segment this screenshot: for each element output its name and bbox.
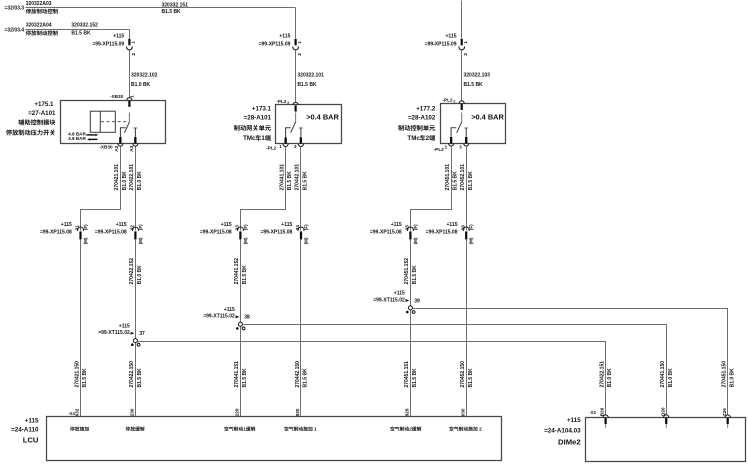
- svg-text:B1.5 BK: B1.5 BK: [242, 265, 248, 285]
- svg-text:=99-XT115.02: =99-XT115.02: [98, 330, 130, 336]
- svg-text:320322.101: 320322.101: [297, 73, 324, 79]
- svg-text:B1.0 BK: B1.0 BK: [668, 368, 674, 388]
- svg-text:32: 32: [130, 225, 135, 231]
- unit =28-A102 brake control unit box: [441, 104, 506, 144]
- svg-text:270441.152: 270441.152: [234, 258, 240, 285]
- svg-text:=32/03.4: =32/03.4: [4, 28, 24, 34]
- pin -PL2:1 box3: [449, 137, 454, 146]
- connector =99-XP115.08 pin 34: [260, 222, 308, 244]
- wire label 270422.152 B1.0 BK: [129, 258, 143, 285]
- svg-text:B1.5 BK: B1.5 BK: [468, 171, 474, 191]
- svg-text:B1.0 BK: B1.0 BK: [137, 171, 143, 191]
- svg-text:1: 1: [243, 427, 246, 433]
- svg-text:270442.101: 270442.101: [295, 164, 301, 191]
- svg-text:>0.4 BAR: >0.4 BAR: [471, 112, 504, 121]
- wire drop to box2: [295, 8, 297, 39]
- svg-text:270451.101: 270451.101: [445, 164, 451, 191]
- svg-text:=99-XP115.08: =99-XP115.08: [370, 230, 402, 236]
- wire 270451.152: [410, 240, 412, 306]
- svg-text:=99-XP115.09: =99-XP115.09: [425, 41, 457, 47]
- wire 270451.101: [411, 147, 452, 231]
- unit =27-A101 auxiliary control module box: [61, 101, 166, 144]
- svg-text:1: 1: [314, 427, 317, 433]
- svg-text:(F): (F): [138, 224, 143, 230]
- svg-text:230: 230: [130, 408, 135, 416]
- wire label 270441.151 B1.5 BK: [234, 361, 248, 388]
- wire label 270442.101 B1.5 BK: [295, 164, 309, 191]
- wire 270442.150 to LCU: [300, 240, 302, 417]
- label 空气制动2缓解: [390, 427, 421, 433]
- label 4.8 BAR threshold: [68, 131, 98, 136]
- pin -X3:B26 DIMe2: [603, 415, 608, 424]
- wire label 270451.150 B1.0 BK: [722, 361, 736, 388]
- wire label 270421.101 B1.0 BK: [114, 164, 128, 191]
- connector =99-XP115.08 pin 35: [370, 222, 418, 244]
- svg-text:37: 37: [139, 331, 145, 337]
- svg-text:320322A03: 320322A03: [26, 1, 52, 7]
- wire 320322.101: [295, 51, 297, 103]
- svg-text:032: 032: [75, 408, 80, 416]
- svg-text:270441.151: 270441.151: [234, 361, 240, 388]
- svg-text:(M): (M): [138, 237, 143, 244]
- svg-text:+115: +115: [113, 33, 124, 39]
- svg-text:B1.5 BK: B1.5 BK: [137, 368, 143, 388]
- wire 320322.102: [129, 51, 131, 98]
- svg-text:Q26: Q26: [660, 407, 665, 416]
- pressure switch S3 contact: [450, 112, 468, 143]
- svg-text:320322.102: 320322.102: [131, 73, 158, 79]
- wire 270441.101: [241, 147, 286, 231]
- svg-text:39: 39: [414, 298, 420, 304]
- svg-text:+115: +115: [61, 222, 72, 228]
- svg-text:(F): (F): [303, 224, 308, 230]
- svg-text:B1.0 BK: B1.0 BK: [607, 368, 613, 388]
- wire label 270451.101 B1.5 BK: [445, 164, 459, 191]
- svg-text:(F): (F): [469, 224, 474, 230]
- svg-text:(F): (F): [83, 224, 88, 230]
- svg-text:228: 228: [235, 408, 240, 416]
- wire drop to box3 from sheet edge: [461, 1, 463, 39]
- svg-text:35: 35: [405, 225, 410, 231]
- svg-text:1: 1: [261, 135, 265, 142]
- label 停放缓解: [126, 427, 145, 432]
- svg-text:+115: +115: [394, 291, 405, 297]
- wire 270421.150 to LCU: [80, 240, 82, 417]
- svg-text:Z26: Z26: [722, 408, 727, 416]
- svg-text:320322A04: 320322A04: [26, 22, 52, 28]
- label 3.8 BAR threshold: [68, 136, 97, 141]
- svg-text:270451.150: 270451.150: [722, 361, 728, 388]
- svg-text:B1.5 BK: B1.5 BK: [412, 265, 418, 285]
- svg-text:+115: +115: [221, 222, 232, 228]
- pressure switch S2 contact: [285, 112, 303, 143]
- svg-text:B1.5 BK: B1.5 BK: [297, 82, 317, 88]
- svg-text:LCU: LCU: [23, 435, 39, 444]
- svg-text:+115: +115: [447, 222, 458, 228]
- svg-text:-PL2: -PL2: [442, 97, 453, 102]
- wire 320322A04 rail: [26, 29, 130, 31]
- wire 270441.152: [240, 240, 242, 323]
- wire bus 38 to DIMe2: [243, 325, 667, 415]
- svg-text:B1.0 BK: B1.0 BK: [137, 265, 143, 285]
- connector =99-XP115.08 pin 31: [40, 222, 88, 244]
- wire label 270451.151 B1.5 BK: [404, 361, 418, 388]
- label 空气制动1缓解: [224, 427, 255, 433]
- svg-text:A3: A3: [129, 145, 135, 152]
- svg-text:270422.150: 270422.150: [129, 361, 135, 388]
- svg-text:B1.0 BK: B1.0 BK: [729, 368, 735, 388]
- svg-text:320322.103: 320322.103: [464, 73, 491, 79]
- svg-text:3.8 BAR: 3.8 BAR: [68, 136, 86, 141]
- wire 270422.152: [135, 240, 137, 339]
- svg-text:B1.5 BK: B1.5 BK: [287, 171, 293, 191]
- svg-text:2: 2: [297, 53, 303, 56]
- svg-text:-PL2: -PL2: [434, 147, 445, 152]
- svg-text:270421.150: 270421.150: [74, 361, 80, 388]
- wire 270452.150 to LCU: [466, 240, 468, 417]
- connector =99-XP115.09 (right) pin1/2: [425, 33, 469, 55]
- wire label 270422.101 B1.0 BK: [129, 164, 143, 191]
- svg-text:(M): (M): [303, 237, 308, 244]
- svg-text:+115: +115: [281, 222, 292, 228]
- svg-text:=28-A101: =28-A101: [244, 115, 272, 122]
- svg-text:+115: +115: [446, 33, 457, 39]
- wire 270421.101: [81, 147, 121, 231]
- wire label 270421.150 B1.5 BK: [74, 361, 88, 388]
- svg-text:-X3: -X3: [589, 410, 596, 415]
- svg-text:38: 38: [244, 315, 250, 321]
- svg-text:+173.1: +173.1: [252, 106, 272, 113]
- svg-text:B1.5 BK: B1.5 BK: [242, 368, 248, 388]
- svg-text:33: 33: [235, 225, 240, 231]
- wire bus 37 to DIMe2: [138, 342, 606, 415]
- wire 270441.151 to LCU: [240, 327, 242, 417]
- wire label 270451.152 B1.5 BK: [404, 258, 418, 285]
- svg-text:+115: +115: [279, 33, 290, 39]
- svg-text:B1.5 BK: B1.5 BK: [82, 368, 88, 388]
- connector =99-XP115.09 (left) pin1/2: [92, 33, 136, 55]
- connector =99-XP115.08 pin 33: [200, 222, 248, 244]
- svg-text:270422.151: 270422.151: [599, 361, 605, 388]
- svg-text:+115: +115: [116, 222, 127, 228]
- svg-text:36: 36: [460, 225, 465, 231]
- svg-text:34: 34: [295, 225, 300, 231]
- svg-text:31: 31: [75, 225, 80, 231]
- svg-text:=99-XP115.08: =99-XP115.08: [95, 230, 127, 236]
- wire bus 39 to DIMe2: [413, 309, 728, 415]
- svg-text:B1.5 BK: B1.5 BK: [464, 82, 484, 88]
- svg-text:=99-XT115.02: =99-XT115.02: [373, 297, 405, 303]
- wire 320322.103: [461, 51, 463, 101]
- svg-text:=24-A110: =24-A110: [11, 426, 39, 433]
- svg-text:=99-XP115.08: =99-XP115.08: [200, 230, 232, 236]
- relay K1 pressure element: [90, 111, 127, 132]
- wire 270442.101: [300, 147, 302, 231]
- wire label 270452.101 B1.5 BK: [460, 164, 474, 191]
- wire label 270442.150 B1.5 BK: [295, 361, 309, 388]
- svg-text:+115: +115: [119, 323, 130, 329]
- svg-text:2: 2: [479, 427, 482, 433]
- svg-text:-PL2: -PL2: [266, 146, 277, 151]
- label 空气制动施加 2: [449, 427, 482, 433]
- pin -PL2:1 box2: [283, 138, 288, 147]
- wire label 270422.150 B1.5 BK: [129, 361, 143, 388]
- svg-text:828: 828: [405, 408, 410, 416]
- svg-text:270452.101: 270452.101: [460, 164, 466, 191]
- svg-text:1: 1: [463, 41, 469, 44]
- unit =24-A104.03 DIMe2 box: [586, 418, 746, 462]
- svg-text:B1.5 BK: B1.5 BK: [303, 368, 309, 388]
- svg-text:2: 2: [287, 101, 289, 105]
- svg-text:270452.150: 270452.150: [460, 361, 466, 388]
- svg-text:(M): (M): [469, 237, 474, 244]
- svg-text:270422.152: 270422.152: [129, 258, 135, 285]
- svg-text:2: 2: [463, 53, 469, 56]
- unit =24-A110 LCU box: [47, 417, 502, 461]
- svg-text:(M): (M): [243, 237, 248, 244]
- svg-text:=99-XP115.08: =99-XP115.08: [40, 230, 72, 236]
- svg-text:-PL2: -PL2: [276, 99, 287, 104]
- label 空气制动施加 1: [284, 427, 317, 433]
- svg-text:270421.101: 270421.101: [114, 164, 120, 191]
- svg-text:320332.152: 320332.152: [71, 22, 98, 28]
- svg-text:270441.150: 270441.150: [660, 361, 666, 388]
- svg-text:+115: +115: [224, 307, 235, 313]
- wire label 270441.101 B1.5 BK: [279, 164, 293, 191]
- pressure switch S1 contact: [119, 112, 137, 143]
- wire drop to -XB30 box1: [129, 30, 131, 39]
- svg-text:(F): (F): [243, 224, 248, 230]
- svg-text:270422.101: 270422.101: [129, 164, 135, 191]
- wire 270422.150 to LCU: [135, 343, 137, 417]
- svg-text:(F): (F): [413, 224, 418, 230]
- wire 270451.151 to LCU: [410, 310, 412, 417]
- svg-text:2: 2: [131, 53, 137, 56]
- terminal =99-XT115.02 pin 38: [203, 307, 250, 330]
- wire label 270452.150 B1.5 BK: [460, 361, 474, 388]
- svg-text:(M): (M): [413, 237, 418, 244]
- svg-text:c: c: [252, 135, 256, 142]
- connector =99-XP115.08 pin 32: [95, 222, 143, 244]
- svg-text:+175.1: +175.1: [34, 101, 54, 108]
- svg-text:=99-XT115.02: =99-XT115.02: [203, 314, 235, 320]
- wire label 270441.152 B1.5 BK: [234, 258, 248, 285]
- svg-text:320332.151: 320332.151: [162, 3, 189, 9]
- svg-text:=99-XP115.09: =99-XP115.09: [92, 41, 124, 47]
- svg-text:(M): (M): [83, 237, 88, 244]
- svg-text:1: 1: [297, 41, 303, 44]
- wire 270422.101: [135, 147, 137, 231]
- svg-text:+115: +115: [567, 417, 581, 424]
- svg-text:830: 830: [295, 408, 300, 416]
- svg-text:>0.4 BAR: >0.4 BAR: [306, 112, 339, 121]
- svg-text:+115: +115: [25, 418, 39, 425]
- svg-text:A2: A2: [114, 145, 120, 152]
- svg-text:270442.150: 270442.150: [295, 361, 301, 388]
- wire 320322A03 rail: [26, 7, 296, 9]
- svg-text:B1.5 BK: B1.5 BK: [412, 368, 418, 388]
- pin -PL2:3 box3: [464, 137, 469, 146]
- svg-text:=32/03.3: =32/03.3: [4, 6, 24, 12]
- svg-text:1: 1: [131, 41, 137, 44]
- pin -PL2:3 box2: [298, 138, 303, 147]
- svg-text:=27-A101: =27-A101: [28, 110, 56, 117]
- svg-text:=28-A102: =28-A102: [408, 115, 436, 122]
- svg-text:270451.152: 270451.152: [404, 258, 410, 285]
- connector =99-XP115.09 (mid) pin1/2: [259, 33, 303, 55]
- svg-text:B26: B26: [600, 407, 605, 416]
- svg-text:B1.0 BK: B1.0 BK: [122, 171, 128, 191]
- svg-text:=24-A104.03: =24-A104.03: [544, 427, 581, 434]
- svg-text:030: 030: [460, 408, 465, 416]
- wire 270452.101: [466, 147, 468, 231]
- svg-text:=99-XP115.08: =99-XP115.08: [260, 230, 292, 236]
- svg-text:B1.0 BK: B1.0 BK: [131, 82, 151, 88]
- svg-text:B1.5 BK: B1.5 BK: [453, 171, 459, 191]
- svg-text:+115: +115: [391, 222, 402, 228]
- pin -XB30:A3: [133, 137, 138, 146]
- wire label 270422.151 B1.0 BK: [599, 361, 613, 388]
- svg-text:B1.5 BK: B1.5 BK: [71, 31, 91, 37]
- svg-text:B1.5 BK: B1.5 BK: [468, 368, 474, 388]
- pin -X3:Q26 DIMe2: [664, 415, 669, 424]
- svg-text:=99-XP115.09: =99-XP115.09: [259, 41, 291, 47]
- svg-text:-XB30: -XB30: [110, 94, 124, 99]
- svg-text:+177.2: +177.2: [416, 106, 436, 113]
- connector =99-XP115.08 pin 36: [426, 222, 474, 244]
- svg-text:c: c: [416, 135, 420, 142]
- terminal =99-XT115.02 pin 39: [373, 291, 420, 314]
- svg-text:2: 2: [426, 135, 430, 142]
- pin -X3:Z26 DIMe2: [725, 415, 730, 424]
- svg-text:-XB30: -XB30: [99, 145, 113, 150]
- svg-text:270451.151: 270451.151: [404, 361, 410, 388]
- pin -XB30:A2: [118, 137, 123, 146]
- svg-text:DIMe2: DIMe2: [558, 438, 581, 447]
- label 停放施加: [70, 427, 89, 432]
- terminal =99-XT115.02 pin 37: [98, 323, 145, 346]
- svg-text:270441.101: 270441.101: [279, 164, 285, 191]
- svg-text:2: 2: [409, 427, 412, 433]
- svg-text:=99-XP115.08: =99-XP115.08: [426, 230, 458, 236]
- svg-text:B1.5 BK: B1.5 BK: [303, 171, 309, 191]
- svg-text:B1.5 BK: B1.5 BK: [162, 9, 182, 15]
- wire label 270441.150 B1.0 BK: [660, 361, 674, 388]
- svg-text:2: 2: [453, 99, 455, 103]
- unit =28-A101 brake gateway unit box: [276, 105, 342, 144]
